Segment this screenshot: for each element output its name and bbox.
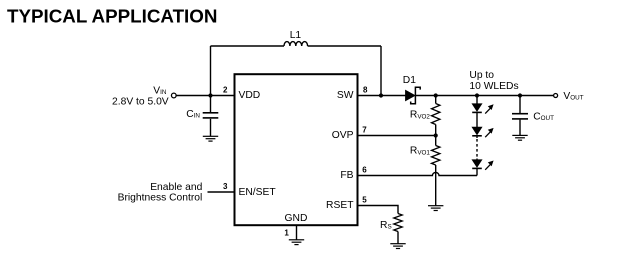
- svg-text:2.8V to 5.0V: 2.8V to 5.0V: [112, 97, 169, 108]
- svg-text:VDD: VDD: [239, 90, 261, 101]
- svg-text:5: 5: [362, 195, 367, 204]
- svg-text:SW: SW: [337, 90, 354, 101]
- svg-text:GND: GND: [285, 213, 308, 224]
- svg-text:8: 8: [363, 85, 368, 94]
- svg-text:FB: FB: [340, 170, 353, 181]
- svg-text:TYPICAL APPLICATION: TYPICAL APPLICATION: [7, 5, 217, 26]
- svg-text:Up to: Up to: [469, 70, 494, 81]
- svg-text:7: 7: [362, 125, 367, 134]
- svg-text:OVP: OVP: [332, 130, 354, 141]
- svg-text:Brightness Control: Brightness Control: [118, 192, 203, 203]
- svg-text:3: 3: [223, 182, 228, 191]
- svg-text:EN/SET: EN/SET: [239, 187, 277, 198]
- svg-text:6: 6: [362, 165, 367, 174]
- svg-text:L1: L1: [290, 30, 302, 41]
- svg-text:10 WLEDs: 10 WLEDs: [469, 81, 518, 92]
- svg-text:RSET: RSET: [326, 200, 354, 211]
- svg-text:D1: D1: [403, 75, 416, 86]
- svg-text:2: 2: [223, 85, 228, 94]
- svg-text:1: 1: [284, 228, 289, 237]
- svg-text:Enable and: Enable and: [150, 182, 202, 193]
